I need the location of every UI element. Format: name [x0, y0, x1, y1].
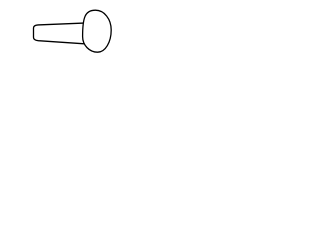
pin head [83, 10, 112, 52]
nail/pin drawing [0, 0, 150, 62]
pin shaft [34, 23, 91, 44]
